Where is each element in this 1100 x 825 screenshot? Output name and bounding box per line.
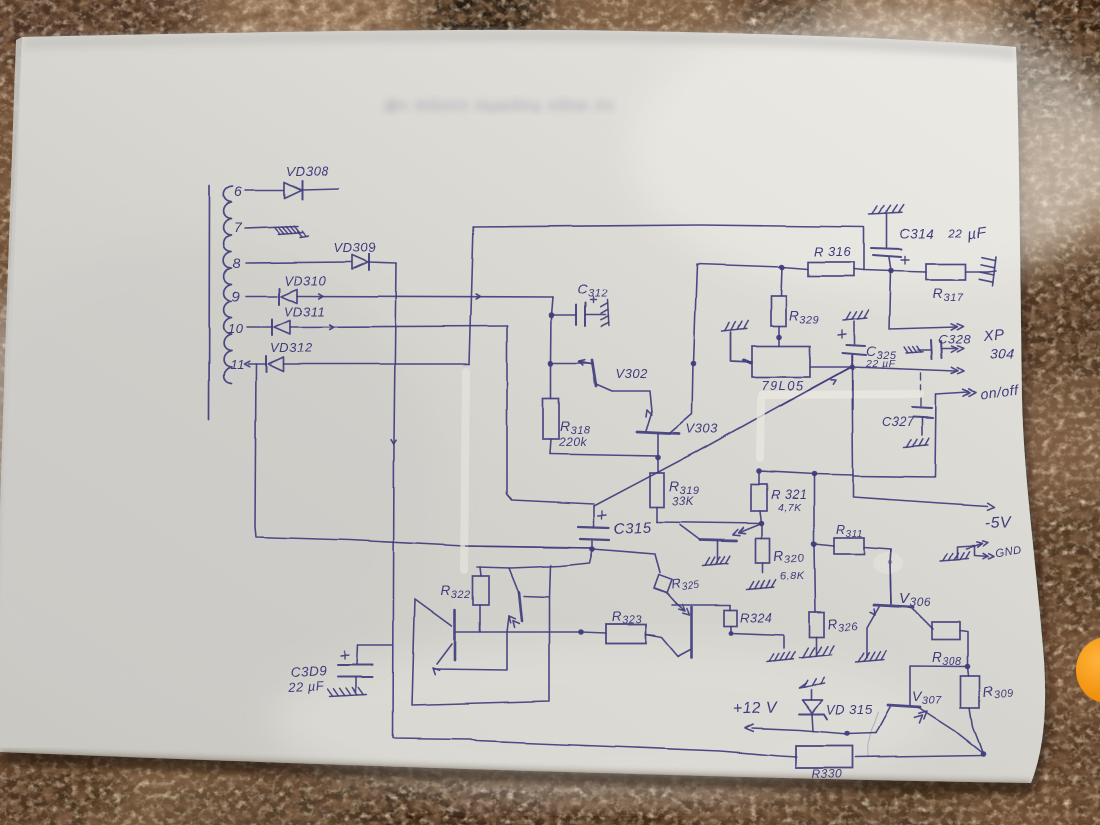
wire tap 9 xyxy=(246,296,553,297)
node R323 left junction xyxy=(578,629,584,635)
svg-text:VD308: VD308 xyxy=(286,164,329,179)
ground C327 xyxy=(904,445,928,447)
wire tap10 drop to C315 top xyxy=(507,326,594,504)
wire R325 feed xyxy=(592,549,660,573)
svg-text:V302: V302 xyxy=(615,366,648,381)
wire +12V line xyxy=(752,728,876,734)
wire arrow XP top xyxy=(957,324,963,330)
wire V306 base drop xyxy=(890,549,891,604)
svg-text:R 316: R 316 xyxy=(814,244,851,259)
regulator U1 79L05 xyxy=(752,346,810,377)
capacitor C325 xyxy=(853,321,855,344)
wire barb on tap 10 wire xyxy=(330,325,334,330)
resistor R321 xyxy=(751,484,767,511)
transformer winding T primary coil xyxy=(224,186,233,384)
svg-text:33K: 33K xyxy=(672,496,695,508)
node R311 rail junction xyxy=(811,471,817,477)
transistor V304 xyxy=(741,524,762,533)
wire collector rail up xyxy=(694,264,783,364)
resistor R309 xyxy=(961,676,980,708)
diode VD311 xyxy=(274,320,290,334)
diode VD312 xyxy=(268,357,283,371)
svg-text:VD312: VD312 xyxy=(270,340,313,355)
wire arrow +12V xyxy=(745,724,753,731)
wire barb on tap8 drop xyxy=(391,440,396,444)
faint smudge near V307 xyxy=(868,712,878,757)
ground R326 xyxy=(799,655,832,658)
diode VD309 xyxy=(352,255,368,269)
ground VD315 arrow hatch xyxy=(799,684,825,689)
capacitor C328 xyxy=(931,340,942,359)
svg-text:µF: µF xyxy=(966,223,987,242)
wire barb on tap 9 wire xyxy=(319,294,323,299)
wire 79L05 output xyxy=(810,366,852,368)
diode VD315 zener xyxy=(812,714,813,731)
svg-text:VD311: VD311 xyxy=(284,304,325,319)
transistor V301 right xyxy=(519,592,522,621)
svg-text:8: 8 xyxy=(233,255,241,271)
wire tap 6 xyxy=(245,189,338,190)
wire box outline xyxy=(412,565,550,705)
ground base rail xyxy=(766,659,793,662)
ink redrawn over white-out diagonal xyxy=(780,355,853,410)
svg-text:XP: XP xyxy=(982,326,1005,345)
capacitor C312 xyxy=(576,303,585,326)
svg-text:V303: V303 xyxy=(686,421,719,436)
wire arrow into V305 base xyxy=(676,603,684,610)
white-out blotch V306 xyxy=(873,552,903,574)
diode VD308 xyxy=(284,182,301,198)
transistor V305 xyxy=(691,607,694,657)
node R309 top junction xyxy=(965,664,971,670)
wire C309 link xyxy=(358,644,393,646)
paper bottom shadow band xyxy=(0,752,1033,795)
svg-text:R 321: R 321 xyxy=(771,488,807,502)
wire R322 top rail xyxy=(477,550,592,568)
svg-text:9: 9 xyxy=(232,288,240,304)
wire arrow output rail xyxy=(958,368,964,374)
node R329 bottom junction xyxy=(776,334,782,340)
wire tap 11 xyxy=(248,363,469,365)
transistor V303 xyxy=(637,432,679,434)
ground C314 xyxy=(869,212,902,214)
resistor R308 xyxy=(932,622,960,640)
svg-text:R330: R330 xyxy=(812,767,843,781)
wire V303 base drop xyxy=(657,458,659,474)
diode VD310 xyxy=(281,289,297,303)
wire tap8 drop and bottom rail xyxy=(393,263,797,757)
wire R325 to V305 base xyxy=(667,593,676,603)
ground C325 xyxy=(843,318,867,321)
node V302 base junction xyxy=(548,360,554,366)
wire diagonal C315 to C325 junction xyxy=(594,367,851,506)
wire tap 7 xyxy=(245,226,298,228)
svg-text:R324: R324 xyxy=(740,611,772,625)
node +12V junction xyxy=(844,731,850,737)
resistor R316 xyxy=(808,262,854,276)
svg-text:VD310: VD310 xyxy=(284,273,327,288)
capacitor C327 xyxy=(920,373,922,406)
wire tap9 corner down xyxy=(551,297,553,363)
transistor V302 xyxy=(592,360,596,386)
white-out streak vertical left xyxy=(464,372,466,570)
wire C314 junction down to XP xyxy=(889,271,956,329)
resistor R317 xyxy=(926,264,966,280)
node V303 collector junction xyxy=(691,361,697,367)
svg-text:10: 10 xyxy=(228,321,244,336)
resistor R318 xyxy=(543,398,559,439)
ground 79L05 input xyxy=(722,328,747,331)
resistor R319 xyxy=(650,473,664,507)
resistor R320 xyxy=(756,538,770,563)
svg-text:22: 22 xyxy=(947,226,962,240)
resistor R323 xyxy=(606,624,646,643)
wire barb on diagonal xyxy=(831,380,836,384)
node C315 junction xyxy=(589,546,595,552)
resistor R324 xyxy=(724,610,737,626)
svg-text:7: 7 xyxy=(234,219,243,235)
ink over white-out V306 xyxy=(890,549,891,604)
svg-text:-5V: -5V xyxy=(984,514,1012,532)
wire base output rail xyxy=(456,631,581,633)
node R316 left junction xyxy=(779,264,785,270)
wire arrow -5V xyxy=(988,503,996,510)
node V306 wire blob xyxy=(888,560,892,564)
svg-text:+12 V: +12 V xyxy=(733,699,779,718)
resistor R325 xyxy=(654,575,672,593)
svg-text:220k: 220k xyxy=(558,435,588,449)
white-out streak horizontal 79L05 xyxy=(762,394,920,395)
wire R318 bottom to V303 base xyxy=(550,454,658,456)
node C314 junction xyxy=(888,268,894,274)
svg-text:C314: C314 xyxy=(900,226,934,241)
node R321 bottom junction xyxy=(759,521,765,527)
svg-text:79L05: 79L05 xyxy=(761,378,805,393)
wire arrow on-off xyxy=(969,389,976,396)
wire R319 bottom rail xyxy=(657,522,762,524)
schematic ink xyxy=(209,164,1023,781)
svg-text:VD309: VD309 xyxy=(334,240,376,255)
svg-text:4,7K: 4,7K xyxy=(778,502,802,514)
node R321 top junction xyxy=(756,468,762,474)
node C325 junction xyxy=(849,364,855,370)
node R319 top junction xyxy=(655,455,661,461)
node R324 bottom junction xyxy=(729,631,734,636)
svg-text:C328: C328 xyxy=(938,332,971,347)
wire arrow GND lower xyxy=(974,556,988,557)
ink over white-out rail xyxy=(465,546,592,548)
node R311 left junction xyxy=(811,541,817,547)
resistor R326 xyxy=(809,612,824,637)
resistor R330 xyxy=(796,746,853,768)
wire tap 8 xyxy=(246,262,396,263)
svg-text:22 µF: 22 µF xyxy=(286,678,324,695)
svg-text:C315: C315 xyxy=(613,519,652,538)
node bottom right junction xyxy=(980,751,986,757)
wire on-off branch xyxy=(854,394,936,477)
ground C309 xyxy=(329,695,367,697)
orange ball on carpet xyxy=(1076,637,1100,703)
node C312 junction xyxy=(549,312,555,318)
wire R330 right lead xyxy=(856,755,983,757)
ground V304 xyxy=(703,564,729,566)
ground V306 emitter xyxy=(856,660,884,662)
resistor R322 xyxy=(473,576,489,605)
svg-text:304: 304 xyxy=(990,346,1015,362)
wire inner emitter loop xyxy=(434,633,507,670)
ground tap 7 xyxy=(278,232,302,234)
wire V305 collector rail xyxy=(672,604,730,606)
wire R311 drop xyxy=(813,474,815,544)
transistor V306 xyxy=(874,605,913,607)
resistor R329 xyxy=(771,296,786,326)
svg-text:фч тйопз пцшдпц одов пч: фч тйопз пцшдпц одов пч xyxy=(385,97,615,114)
ground small C328 xyxy=(906,352,923,353)
wire R321 top rail xyxy=(759,471,853,475)
capacitor C309 xyxy=(338,665,373,677)
wire left bus xyxy=(208,186,211,420)
wire tap 10 xyxy=(247,326,507,327)
ground R317 xyxy=(993,257,997,286)
wire V302 base xyxy=(551,362,590,364)
ground R320 xyxy=(747,588,774,590)
svg-text:VD 315: VD 315 xyxy=(826,702,873,717)
paper under-sheet edge xyxy=(0,37,22,640)
resistor R311 xyxy=(834,538,864,554)
ground C312 xyxy=(607,300,608,326)
svg-text:6: 6 xyxy=(234,183,242,199)
wire arrow GND upper xyxy=(966,544,982,549)
ground GND symbol xyxy=(940,559,968,561)
wire arrow into pin 11 xyxy=(244,361,249,367)
wire arrow C328 xyxy=(958,346,964,352)
svg-text:11: 11 xyxy=(230,357,245,372)
capacitor C314 xyxy=(886,214,888,247)
wire top long horizontal xyxy=(473,225,864,270)
wire output rail to XP xyxy=(852,367,956,371)
wire tap11 drop to C315 rail xyxy=(255,364,592,548)
transistor V300 left xyxy=(454,610,457,660)
wire -5V rail xyxy=(852,367,988,506)
wire base rail to ground xyxy=(731,633,783,648)
svg-text:C327: C327 xyxy=(882,415,914,429)
white-out streak vertical 79L05 xyxy=(760,399,761,458)
wire R326 drop xyxy=(814,544,815,612)
wire top link vertical xyxy=(469,227,473,364)
capacitor C315 xyxy=(593,506,595,527)
transistor V307 xyxy=(910,666,968,705)
svg-text:6.8K: 6.8K xyxy=(780,571,805,583)
